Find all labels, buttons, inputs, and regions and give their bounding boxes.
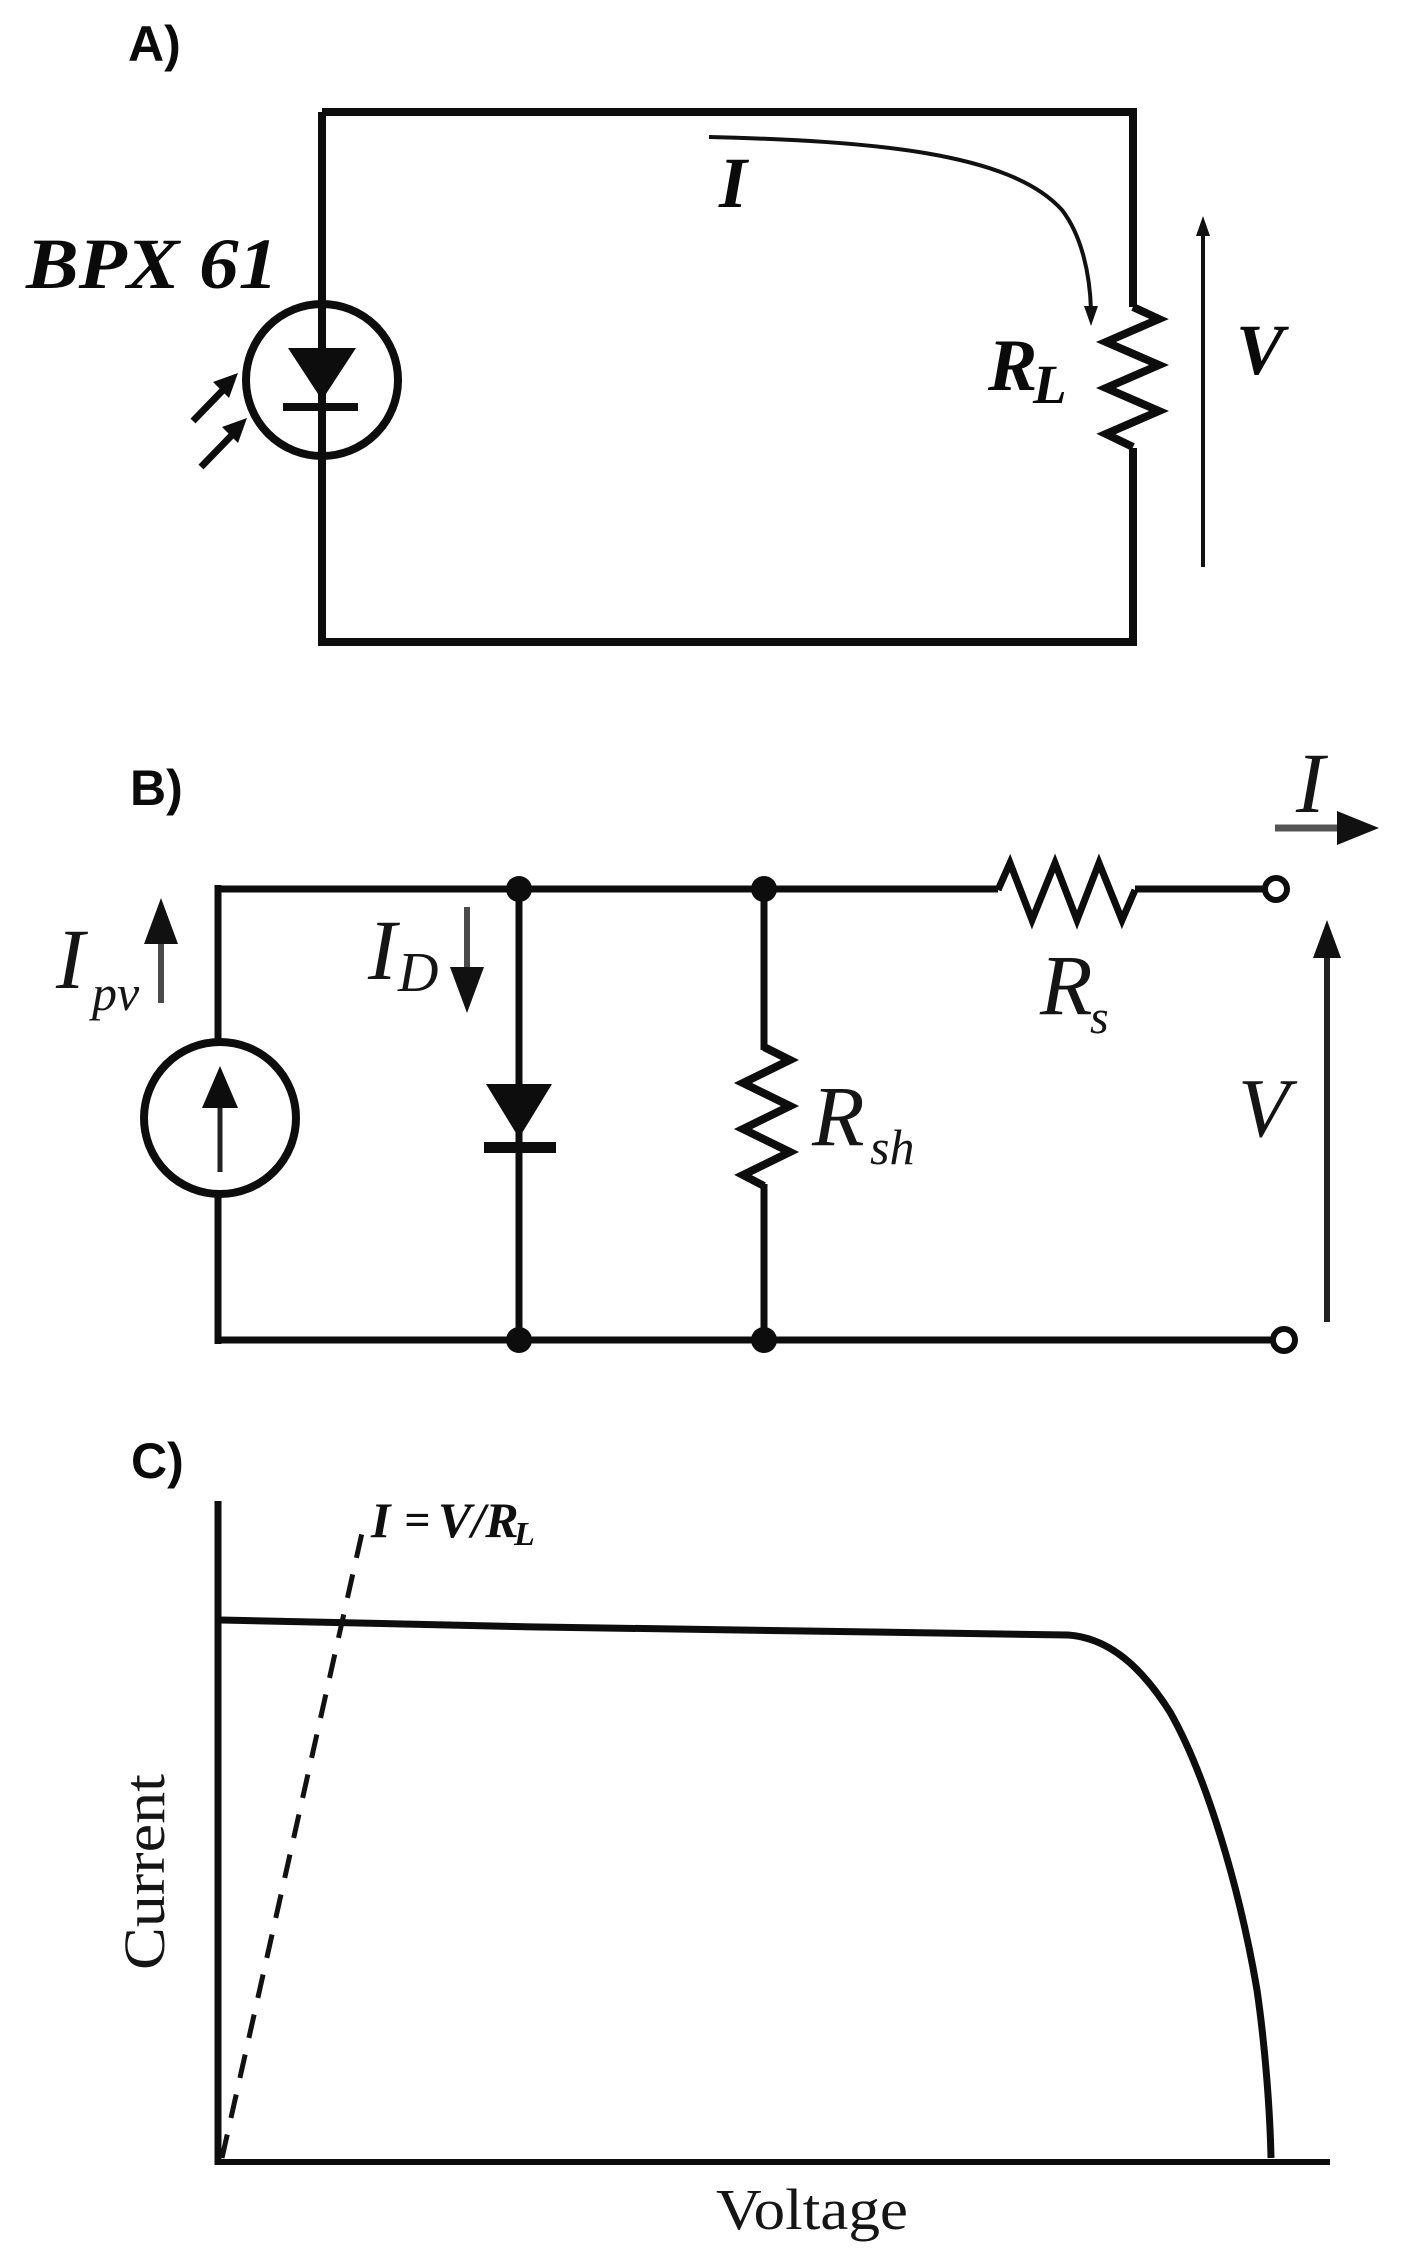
ID direction arrow: [464, 907, 470, 968]
output terminal top: [1265, 878, 1287, 900]
svg-text:I: I: [55, 911, 88, 1007]
svg-text:B): B): [130, 760, 183, 816]
output terminal bottom: [1273, 1329, 1295, 1351]
wire loop of circuit A: [322, 108, 1133, 646]
svg-text:I: I: [367, 902, 400, 998]
svg-text:I: I: [370, 1492, 392, 1548]
svg-text:s: s: [1090, 991, 1109, 1044]
svg-text:Voltage: Voltage: [716, 2177, 908, 2242]
label RL: [987, 325, 1067, 415]
svg-text:R: R: [1039, 937, 1093, 1033]
circuit B wires: [218, 885, 1274, 1344]
svg-text:R: R: [811, 1068, 865, 1164]
photodiode BPX61: [246, 304, 398, 456]
svg-text:L: L: [513, 1516, 535, 1553]
light arrow 2 into photodiode: [201, 418, 247, 467]
svg-text:Current: Current: [112, 1774, 177, 1970]
voltage arrow V (circuit B): [1324, 957, 1330, 1322]
current source Ipv: [144, 1042, 296, 1194]
svg-text:I: I: [1295, 735, 1328, 831]
svg-text:pv: pv: [89, 965, 140, 1021]
svg-text:I: I: [718, 143, 750, 223]
svg-text:D: D: [397, 942, 438, 1004]
label Rsh: [811, 1068, 914, 1175]
label I = V/RL: [370, 1492, 535, 1553]
load line I=V/RL (dashed): [222, 1524, 364, 2158]
svg-text:BPX 61: BPX 61: [25, 224, 278, 304]
svg-text:=: =: [404, 1494, 430, 1545]
Ipv direction arrow: [158, 944, 164, 1003]
resistor RL: [1106, 307, 1159, 447]
svg-text:V/R: V/R: [438, 1492, 519, 1548]
svg-text:L: L: [1032, 354, 1067, 415]
resistor Rs: [998, 863, 1135, 920]
IV curve: [221, 1620, 1271, 2158]
resistor Rsh: [743, 1047, 790, 1186]
svg-text:V: V: [1238, 1062, 1298, 1155]
node dot bottom-mid: [751, 1327, 777, 1353]
output current arrow: [1275, 825, 1340, 832]
y axis: [215, 1501, 222, 2165]
node dot top-mid: [751, 876, 777, 902]
svg-text:A): A): [128, 16, 181, 72]
label Rs: [1039, 937, 1109, 1044]
light arrow 1 into photodiode: [193, 373, 238, 421]
node dot bottom-left: [506, 1327, 532, 1353]
svg-text:sh: sh: [870, 1119, 914, 1175]
svg-text:C): C): [131, 1433, 184, 1489]
node dot top-left: [506, 876, 532, 902]
svg-text:R: R: [987, 325, 1037, 407]
label ID: [367, 902, 438, 1004]
svg-text:V: V: [1236, 310, 1289, 390]
voltage arrow V (circuit A): [1201, 230, 1205, 567]
x axis: [215, 2159, 1330, 2165]
diode D: [486, 1084, 552, 1138]
label Ipv: [55, 911, 140, 1021]
current arrow I (curved): [709, 137, 1091, 310]
